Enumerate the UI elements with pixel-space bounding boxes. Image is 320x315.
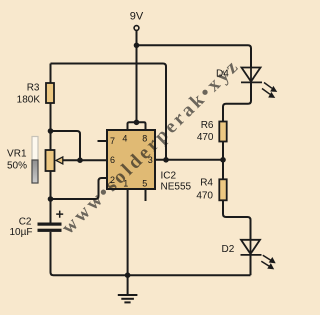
junction dot at ground	[125, 272, 131, 278]
pin 7 stub	[98, 140, 108, 142]
svg-text:10µF: 10µF	[10, 227, 33, 238]
watermark www.solderperak.xyz	[58, 55, 244, 239]
svg-text:9V: 9V	[130, 11, 144, 23]
wire: R6 bottom lead	[222, 142, 224, 160]
svg-text:6: 6	[110, 155, 115, 165]
junction dot below R3	[48, 128, 54, 134]
resistor R6	[219, 122, 226, 142]
D2 light arrows	[261, 255, 275, 269]
wire: junction to R4	[222, 160, 224, 180]
wire: R3 bottom lead to junction	[50, 103, 52, 131]
svg-text:180K: 180K	[17, 95, 41, 106]
svg-text:IC2: IC2	[161, 171, 177, 182]
capacitor C2 bottom plate	[38, 229, 62, 232]
junction dot above C2	[48, 196, 54, 202]
pins 4/8 top bracket	[128, 122, 146, 130]
wire: pin 3 to R6/R4 junction	[155, 159, 223, 161]
LED D2	[241, 240, 262, 255]
capacitor C2 top plate	[38, 223, 62, 226]
junction dot R6/R4	[220, 157, 226, 163]
svg-text:VR1: VR1	[7, 149, 27, 160]
ground	[118, 275, 138, 302]
svg-text:7: 7	[110, 136, 115, 146]
svg-text:5: 5	[142, 178, 147, 188]
svg-text:D2: D2	[222, 244, 235, 255]
wire: VR1 top lead	[50, 131, 52, 150]
svg-text:R6: R6	[201, 120, 214, 131]
wire: C2 bottom lead to bottom rail	[51, 232, 251, 275]
VR1 slider track	[32, 137, 38, 184]
IC2 NE555 body	[107, 130, 155, 189]
svg-text:50%: 50%	[7, 161, 27, 172]
potentiometer VR1 body	[46, 150, 55, 171]
svg-text:470: 470	[197, 132, 214, 143]
plus sign of C2	[56, 211, 63, 218]
svg-text:NE555: NE555	[161, 182, 192, 193]
svg-text:R3: R3	[27, 83, 40, 94]
9V supply terminal	[134, 26, 139, 31]
VR1 slider thumb (50%)	[32, 160, 38, 183]
wire: R4 bottom to D2 anode	[223, 200, 251, 240]
junction dot at 9V rail / top rail	[134, 43, 140, 49]
svg-text:C2: C2	[19, 217, 32, 228]
wire: VR1 bottom lead to junction	[50, 171, 52, 199]
svg-text:470: 470	[196, 190, 213, 201]
wire: D4 cathode to R6	[223, 82, 251, 121]
wire: R3 top rail to pin 3 rail	[51, 64, 167, 160]
wire: R3 top lead	[50, 64, 52, 84]
LED D4	[241, 68, 262, 83]
D4 light arrows	[262, 83, 276, 98]
pin 1 lead to ground rail	[127, 189, 129, 275]
wire: 9V rail down to pins 4/8 bracket	[136, 31, 138, 123]
resistor R4	[219, 179, 226, 200]
wire: junction to wiper line	[51, 131, 81, 160]
wiper arrow of VR1	[56, 157, 63, 164]
wire: wiper to IC pin 6	[62, 159, 107, 161]
resistor R3	[46, 83, 54, 103]
wire: top rail from 9V junction to D4	[137, 45, 252, 67]
junction dot pin3 rail	[163, 157, 169, 163]
svg-text:R4: R4	[200, 178, 213, 189]
junction dot on pins 4/8 bracket	[134, 120, 140, 126]
pin 5 stub	[145, 189, 147, 201]
svg-text:4: 4	[122, 134, 127, 144]
wire: pin 2 to junction above C2	[51, 178, 108, 199]
wire: C2 top lead	[50, 199, 52, 223]
wire: D2 cathode to bottom rail	[250, 255, 252, 275]
junction dot on wiper line	[77, 157, 83, 163]
